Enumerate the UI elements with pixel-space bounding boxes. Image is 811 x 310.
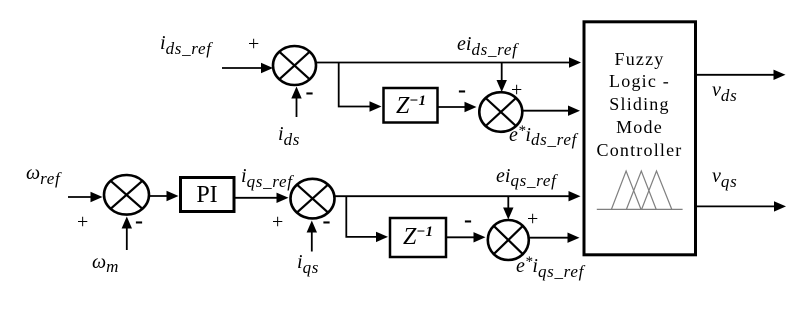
wire: ei_qs_ref to controller bbox=[335, 191, 581, 201]
wire: branch down to Z1 bbox=[339, 63, 382, 112]
wire: v_ds output arrow bbox=[696, 70, 786, 80]
minus sign at S3 bbox=[135, 209, 143, 233]
label i_ds bbox=[278, 124, 300, 144]
plus sign at S2 bbox=[511, 80, 522, 100]
minus sign at S4 bbox=[323, 209, 331, 233]
fuzzy membership function icon bbox=[597, 171, 683, 209]
label omega_m bbox=[92, 252, 119, 272]
plus sign at S3 bbox=[77, 212, 88, 232]
block Z1 delay bbox=[384, 88, 438, 123]
wire: i_ds feedback up arrow bbox=[291, 87, 301, 118]
wire: branch down to Z2 bbox=[346, 196, 388, 242]
plus sign at S4 bbox=[272, 212, 283, 232]
plus sign at S5 bbox=[527, 209, 538, 229]
block Z2 delay bbox=[390, 218, 446, 257]
wire: ei_ds_ref to controller bbox=[316, 57, 581, 67]
summing junction S5 (delta e i_qs) bbox=[488, 220, 529, 260]
minus sign at S2 bbox=[458, 78, 466, 102]
wire: Z1 to S2 bbox=[438, 102, 477, 112]
label v_ds bbox=[712, 80, 737, 100]
wire: omega_m feedback up arrow bbox=[122, 217, 132, 251]
wire: S3 to PI bbox=[149, 191, 179, 201]
block U1 text bbox=[584, 48, 695, 163]
wire: e*i_qs_ref to controller bbox=[529, 233, 580, 243]
wire: v_qs output arrow bbox=[696, 201, 786, 211]
label e*i_ds_ref bbox=[509, 125, 577, 145]
wire: i_qs feedback up arrow bbox=[307, 221, 317, 252]
block Z1 text bbox=[396, 94, 426, 118]
label v_qs bbox=[712, 166, 737, 186]
label i_qs_ref bbox=[241, 166, 293, 186]
summing junction S3 (speed error) bbox=[104, 175, 149, 215]
label i_qs bbox=[297, 252, 319, 272]
wire: drop from ei_ds_ref line into S2 bbox=[497, 63, 507, 93]
summing junction S2 (delta e i_ds) bbox=[479, 92, 522, 132]
label omega_ref bbox=[26, 163, 60, 183]
label ei_ds_ref bbox=[457, 34, 518, 54]
block PI controller bbox=[181, 178, 235, 212]
minus sign at S5 bbox=[464, 208, 472, 232]
block PI text bbox=[180, 183, 234, 207]
wire: e*i_ds_ref to controller bbox=[522, 106, 580, 116]
wire: Z2 to S5 bbox=[447, 232, 486, 242]
wire: PI to S4 bbox=[235, 193, 289, 203]
summing junction S1 (i_ds error) bbox=[273, 46, 316, 85]
label i_ds_ref bbox=[160, 33, 212, 53]
wire: omega_ref input arrow bbox=[68, 192, 103, 202]
plus sign at S1 bbox=[248, 34, 259, 54]
label e*i_qs_ref bbox=[516, 256, 584, 276]
block Z2 text bbox=[403, 225, 433, 249]
wire: drop from ei_qs_ref line into S5 bbox=[503, 196, 513, 219]
minus sign at S1 bbox=[306, 80, 314, 104]
label ei_qs_ref bbox=[496, 166, 557, 186]
wire: i_ds_ref input arrow bbox=[222, 63, 273, 73]
summing junction S4 (i_qs error) bbox=[291, 179, 335, 219]
block U1: Fuzzy Logic Sliding Mode Controller bbox=[584, 22, 696, 255]
